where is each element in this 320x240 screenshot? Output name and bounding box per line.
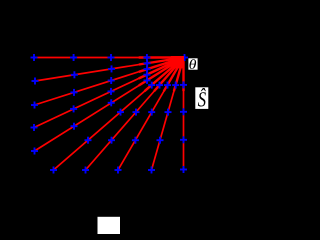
label S-hat [195,87,208,109]
node markers ray7 [82,82,163,174]
wire ray10 from source [183,58,185,170]
wire ray8 from source [118,58,184,171]
wire ray2 from source [35,58,184,82]
label theta [188,58,197,69]
node origin marker [181,54,188,61]
node markers ray4 [31,71,151,131]
node markers ray2 [32,60,151,85]
node markers ray10 [180,81,187,173]
node markers ray6 [50,82,155,174]
wire ray9 from source [152,58,184,171]
wire ray1 from source [34,57,184,59]
node markers ray8 [115,82,172,174]
node markers ray5 [31,77,151,155]
node markers ray3 [31,66,151,109]
node markers ray9 [148,82,179,174]
caption box [98,217,121,234]
wire ray5 from source [35,58,184,152]
source square [171,56,184,68]
wire ray3 from source [35,58,184,106]
node markers ray1 [31,54,151,61]
wire ray4 from source [34,58,184,128]
wire ray7 from source [86,58,184,171]
wire ray6 from source [54,58,184,171]
